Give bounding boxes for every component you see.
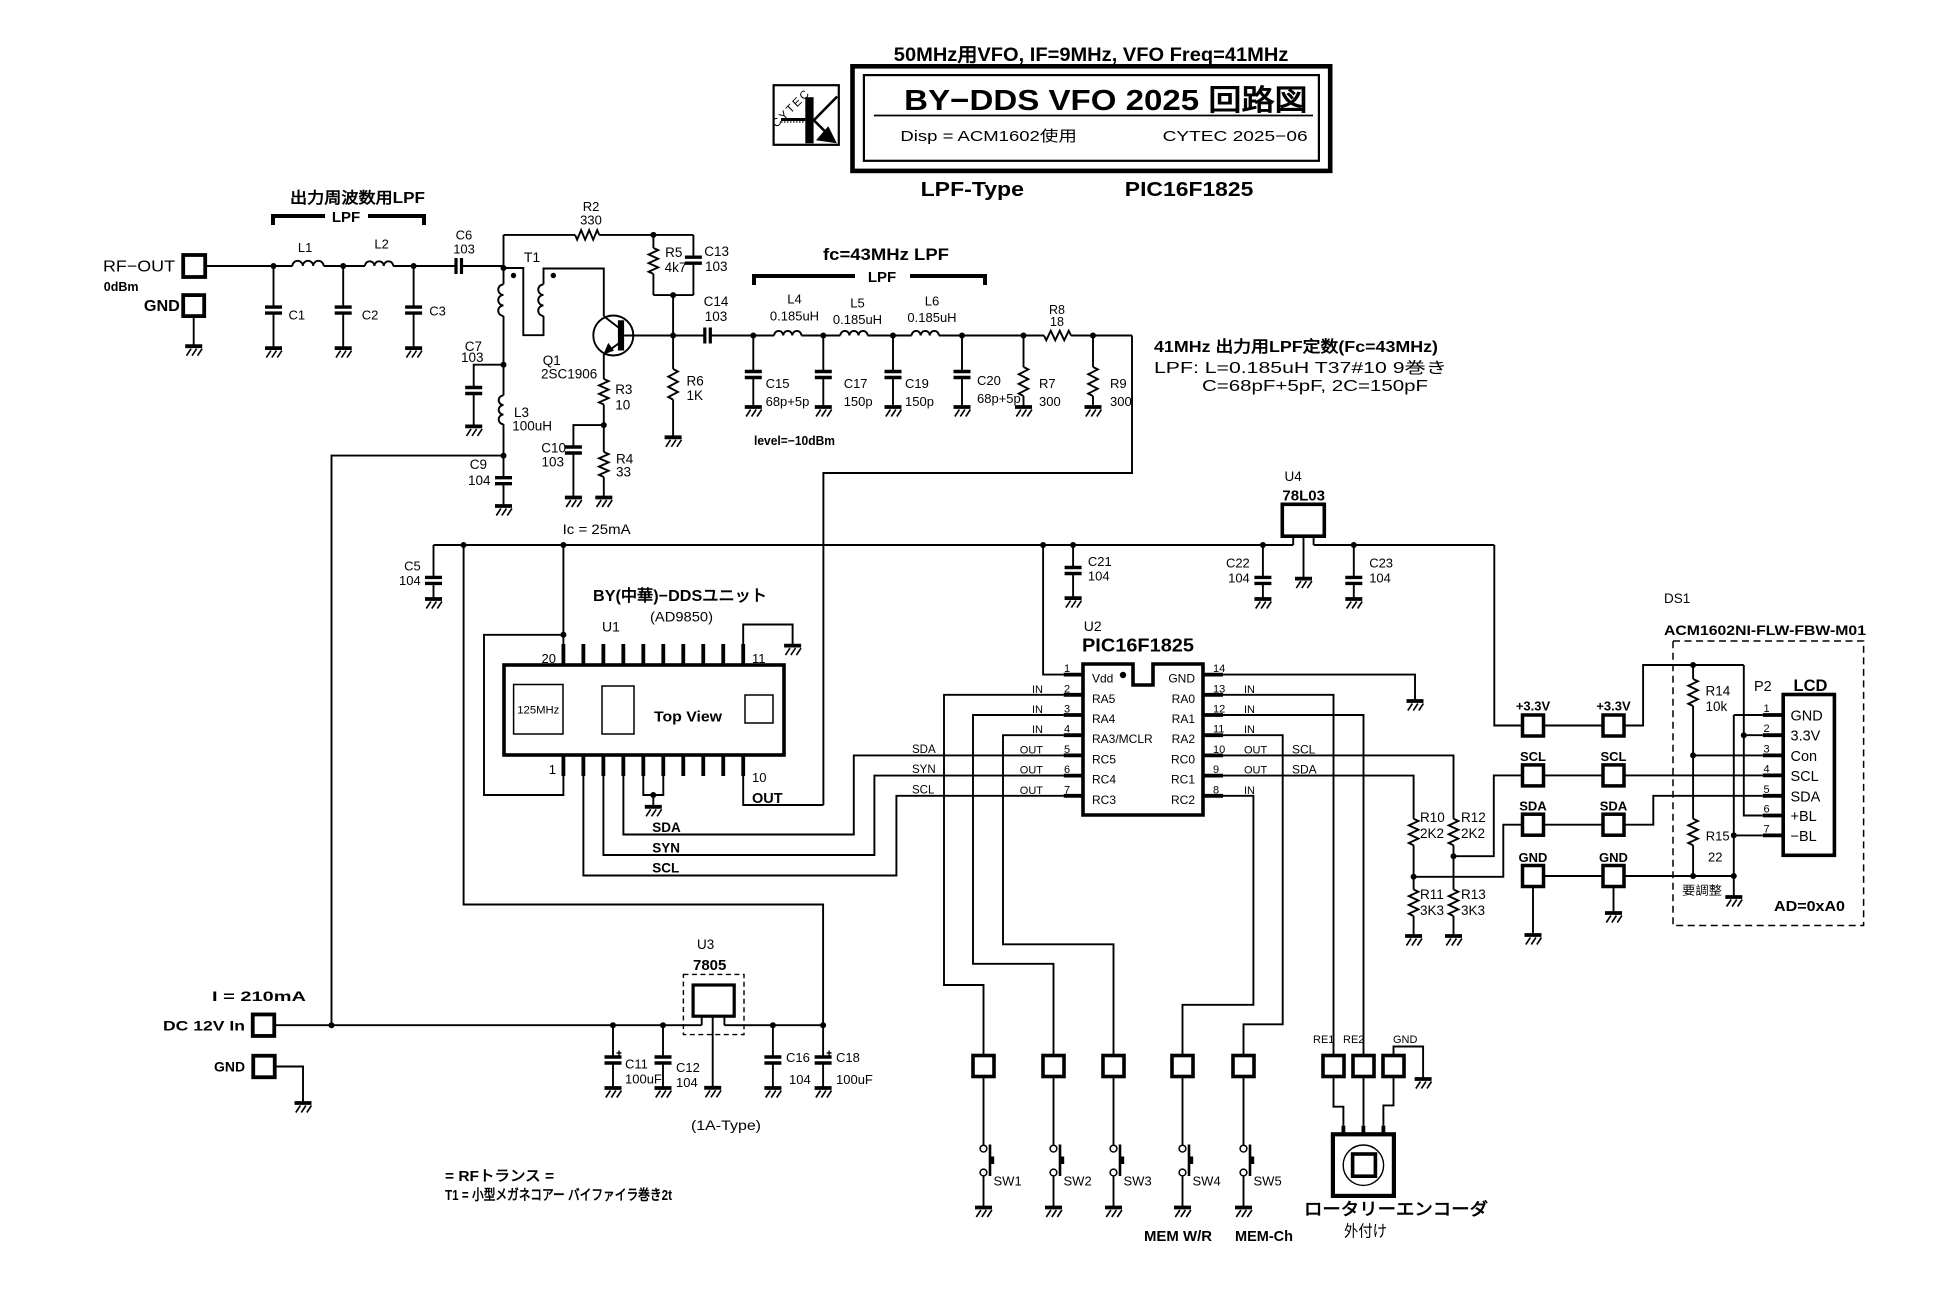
svg-text:GND: GND [144,298,180,315]
inductor L2 [365,261,393,266]
capacitor C18 [822,1025,824,1057]
svg-text:7805: 7805 [693,957,726,974]
svg-text:BY−DDS VFO 2025 回路図: BY−DDS VFO 2025 回路図 [904,84,1307,117]
inductor L5 [840,331,867,336]
pic pin1 indicator dot [1120,672,1126,678]
svg-text:LPF: LPF [332,209,360,226]
node L3/C9 junction [501,453,507,459]
svg-text:12: 12 [1213,704,1225,716]
resistor R4 [599,452,609,477]
wire Q1 base to node [624,335,705,337]
ground (C10) [565,496,582,500]
dds U1 top pins [562,644,566,665]
pin U3 ground [712,1016,714,1088]
ground (dds pin11) [784,644,801,648]
pad +3.3V right [1603,715,1624,736]
wire dds pin1 supply loop [484,635,563,795]
wire dds pin11 to ground [743,625,792,646]
svg-text:8: 8 [1213,784,1219,796]
svg-text:103: 103 [541,455,564,470]
pad RE2 [1353,1056,1374,1077]
wire SW1 to ground [983,1176,985,1208]
pad GND left [1523,866,1544,887]
dds right box [745,695,773,723]
svg-text:SW1: SW1 [994,1174,1022,1189]
svg-text:T1: T1 [524,249,541,265]
svg-text:RA3/MCLR: RA3/MCLR [1092,732,1153,746]
svg-text:+3.3V: +3.3V [1596,699,1631,714]
switch SW3 [1110,1145,1117,1152]
svg-text:U4: U4 [1285,469,1303,484]
svg-text:C13: C13 [704,244,729,259]
svg-text:1: 1 [1764,703,1770,715]
phase dot T1 primary [511,273,516,278]
node dds pin20 junction [560,632,566,638]
wire Q1 emitter to R3 [603,354,605,379]
wire pad to SW4 [1182,1077,1184,1146]
node R14 top junction [1690,662,1696,668]
svg-text:ACM1602NI-FLW-FBW-M01: ACM1602NI-FLW-FBW-M01 [1664,623,1867,638]
svg-text:DS1: DS1 [1664,591,1690,606]
pad SW1 [973,1056,994,1077]
svg-text:78L03: 78L03 [1282,488,1325,505]
svg-text:C1: C1 [289,308,306,323]
wire pad to SW3 [1113,1077,1115,1146]
svg-text:100uH: 100uH [512,419,552,434]
pad SW2 [1043,1056,1064,1077]
svg-text:C14: C14 [704,294,729,309]
svg-text:14: 14 [1213,663,1225,675]
dds chip U1 body [504,665,784,755]
wire SCL node to pads [1454,775,1523,856]
svg-text:GND: GND [1393,1034,1418,1046]
capacitor C12 [662,1025,664,1057]
svg-text:20: 20 [542,651,556,666]
svg-text:C5: C5 [404,559,421,574]
wire GND pad right drop [1613,887,1615,914]
transistor Q1 body circle [593,316,633,356]
capacitor C15 [752,336,754,372]
node C23 junction [1351,542,1357,548]
svg-text:OUT: OUT [1020,744,1044,756]
resistor R11 [1409,890,1419,917]
wire R5/C13 bottom link [653,294,693,296]
wire LCD pin2 link [1744,734,1763,736]
wire pic pin3 to SW2 [973,715,1064,1055]
svg-text:C16: C16 [786,1050,810,1065]
svg-text:0.185uH: 0.185uH [907,310,956,325]
inductor L3 [503,365,505,396]
svg-text:3.3V: 3.3V [1791,729,1821,745]
lcd connector body [1783,695,1834,856]
svg-text:外付け: 外付け [1344,1223,1387,1241]
svg-text:PIC16F1825: PIC16F1825 [1082,636,1194,656]
svg-text:104: 104 [789,1072,811,1087]
wire pic pin12 to RE2 [1223,715,1364,1055]
svg-text:LCD: LCD [1794,677,1828,695]
terminal DC 12V In [253,1014,275,1035]
svg-text:33: 33 [616,464,631,479]
pin U4 output [1313,536,1315,545]
ground (RF GND terminal) [185,344,202,348]
wire GND pad to encoder [1383,1077,1393,1126]
wire T1 node up to R2 line [503,235,505,268]
wire SW2 to ground [1053,1176,1055,1208]
svg-text:L2: L2 [374,237,388,252]
svg-text:5: 5 [1764,784,1770,796]
svg-text:3K3: 3K3 [1461,903,1485,918]
svg-text:T1 = 小型メガネコアー バイファイラ巻き2t: T1 = 小型メガネコアー バイファイラ巻き2t [445,1186,672,1204]
node C15/L4 input [750,333,756,339]
title divider line [874,115,1313,117]
svg-text:2: 2 [1764,723,1770,735]
svg-text:104: 104 [1228,571,1250,586]
svg-text:SW3: SW3 [1124,1174,1152,1189]
wire R11 to ground [1413,916,1415,936]
svg-text:要調整: 要調整 [1682,883,1722,898]
node Con junction [1690,752,1696,758]
svg-text:5: 5 [1064,744,1070,756]
capacitor C10 [565,445,582,448]
node C19 junction [890,333,896,339]
capacitor C20 [961,336,963,372]
wire R13 to ground [1453,916,1455,936]
pad SCL left [1523,765,1544,786]
pic chip U2 body [1083,664,1203,815]
svg-text:2: 2 [1064,683,1070,695]
svg-text:SCL: SCL [1791,769,1819,785]
switch SW1 [980,1145,987,1152]
node C12 junction [660,1022,666,1028]
ground (C21) [1065,596,1082,600]
svg-text:7: 7 [1064,784,1070,796]
svg-text:10: 10 [1213,744,1225,756]
pad SW5 [1233,1056,1254,1077]
svg-text:103: 103 [705,259,728,274]
logo hatch line [781,118,805,121]
ground (R9) [1085,405,1102,409]
capacitor C5 [433,545,435,577]
regulator U3 box [693,985,734,1016]
wire C6 to T1 node [462,265,504,267]
ground (C1) [265,346,282,350]
ground (power GND) [295,1101,312,1105]
dds middle box [602,686,634,734]
svg-text:I = 210mA: I = 210mA [212,989,306,1004]
svg-text:104: 104 [1088,569,1110,584]
svg-text:11: 11 [752,651,766,666]
svg-text:C19: C19 [905,376,929,391]
svg-text:(AD9850): (AD9850) [650,609,713,625]
wire R8 to output corner [1071,335,1132,337]
capacitor C17 [822,336,824,372]
switch SW2 [1050,1145,1057,1152]
capacitor C13 [692,235,694,257]
switch SW5 [1240,1145,1247,1152]
wire SCL to LCD pin4 [1624,774,1763,776]
ground (C3) [405,346,422,350]
rotary encoder body [1333,1134,1394,1196]
wire R10 to R11 [1413,845,1415,889]
svg-text:104: 104 [399,573,421,588]
resistor R15 [1692,755,1694,818]
svg-text:7: 7 [1764,823,1770,835]
ground (SW1) [975,1206,992,1210]
wire pic pin2 to SW1 [944,695,1064,1056]
node DDS supply junction [560,542,566,548]
ground (C17) [815,405,832,409]
svg-text:SCL: SCL [1292,742,1316,756]
svg-text:RC4: RC4 [1092,773,1116,787]
svg-text:MEM W/R: MEM W/R [1144,1228,1212,1245]
node LCD gnd junction [1731,873,1737,879]
svg-text:C9: C9 [470,457,487,472]
svg-text:R12: R12 [1461,810,1486,825]
node C18 junction [820,1022,826,1028]
svg-text:RC5: RC5 [1092,752,1116,766]
terminal GND (power) [253,1056,275,1078]
svg-text:1: 1 [549,762,556,777]
svg-text:C17: C17 [844,376,868,391]
wire encoder GND pad to ground [1394,1047,1424,1080]
svg-text:SCL: SCL [652,861,679,876]
svg-text:10: 10 [615,398,630,413]
lcd module dashed box [1673,641,1864,926]
svg-text:GND: GND [1791,709,1823,725]
ground (C7) [465,424,482,428]
pic left pin stubs [1064,673,1083,677]
svg-text:RA5: RA5 [1092,692,1116,706]
svg-text:10: 10 [752,770,766,785]
ground (pic pin14) [1407,699,1424,703]
capacitor C3 [413,266,415,307]
svg-text:SW5: SW5 [1254,1174,1282,1189]
svg-text:+BL: +BL [1791,809,1817,825]
ground (C18) [815,1086,832,1090]
resistor R2 [575,230,599,240]
svg-text:L1: L1 [298,240,312,255]
ground (SW4) [1174,1206,1191,1210]
svg-text:SYN: SYN [652,841,680,856]
svg-text:125MHz: 125MHz [517,705,559,717]
node C11 junction [610,1022,616,1028]
wire pad to SW5 [1243,1077,1245,1146]
svg-text:RA2: RA2 [1172,732,1196,746]
wire LCD ground bus [1733,715,1735,897]
pad SW3 [1103,1056,1124,1077]
svg-text:3K3: 3K3 [1420,903,1444,918]
svg-text:330: 330 [580,213,602,228]
svg-text:Ic = 25mA: Ic = 25mA [563,521,632,537]
pic right pin stubs [1203,673,1223,677]
svg-text:U3: U3 [697,937,714,952]
svg-text:18: 18 [1050,315,1064,329]
wire dds OUT [743,776,823,805]
ground (C9) [495,504,512,508]
wire L2 to C6 [393,265,456,267]
pad RE1 [1323,1056,1344,1077]
wire +3.3V pads link [1544,725,1604,727]
svg-text:4: 4 [1064,724,1070,736]
svg-text:Vdd: Vdd [1092,672,1113,686]
wire dds pins 6/7 join [643,776,663,795]
wire L1 to L2 [324,265,365,267]
svg-text:SDA: SDA [652,820,681,835]
dds U1 bottom pins [562,755,566,776]
resistor R12 [1449,819,1459,845]
wire R2 line left segment [504,234,576,236]
svg-text:SDA: SDA [912,744,936,756]
svg-text:CYTEC 2025−06: CYTEC 2025−06 [1163,128,1308,145]
ground (C12) [655,1086,672,1090]
ground (LCD) [1725,895,1742,899]
svg-text:104: 104 [1369,571,1391,586]
node LCD 3.3V pin2 junction [1741,732,1747,738]
svg-text:100uF: 100uF [625,1072,662,1087]
svg-text:41MHz 出力用LPF定数(Fc=43MHz): 41MHz 出力用LPF定数(Fc=43MHz) [1154,337,1438,356]
svg-text:C2: C2 [362,308,379,323]
capacitor C9 [503,456,505,478]
transformer T1 link wire [504,268,544,335]
svg-text:RC1: RC1 [1171,773,1195,787]
svg-text:103: 103 [453,242,475,257]
node dds gnd pins junction [650,792,656,798]
pad +3.3V left [1523,715,1544,736]
logo arrow upper diagonal [814,97,838,121]
svg-text:C6: C6 [456,228,473,243]
svg-text:C15: C15 [766,376,790,391]
svg-text:50MHz用VFO, IF=9MHz, VFO Freq: 50MHz用VFO, IF=9MHz, VFO Freq=41MHz [894,45,1289,66]
node C22 junction [1260,542,1266,548]
wire C14 to LPF input [710,335,774,337]
svg-text:6: 6 [1764,804,1770,816]
svg-text:0.185uH: 0.185uH [833,312,882,327]
svg-text:BY(中華)−DDSユニット: BY(中華)−DDSユニット [593,586,767,605]
ground (C15) [745,405,762,409]
svg-text:SDA: SDA [1519,799,1547,814]
svg-text:C11: C11 [625,1057,648,1072]
svg-text:DC 12V In: DC 12V In [163,1018,245,1034]
wire pad to SW1 [983,1077,985,1146]
wire GND terminal to ground [193,316,195,346]
svg-text:R15: R15 [1706,829,1730,844]
capacitor C16 [772,1025,774,1057]
svg-text:LPF: L=0.185uH T37#10 9巻き: LPF: L=0.185uH T37#10 9巻き [1154,359,1447,377]
wire RE1 to encoder [1334,1077,1344,1126]
node R12/R13 junction [1451,853,1457,859]
wire +3.3V to LCD [1624,665,1744,726]
capacitor C2 [342,266,344,307]
svg-text:出力周波数用LPF: 出力周波数用LPF [290,188,425,207]
node C16 junction [770,1022,776,1028]
svg-text:U2: U2 [1084,618,1102,634]
wire 5V output line [724,1024,823,1026]
svg-text:13: 13 [1213,683,1225,695]
capacitor C1 [273,266,275,307]
svg-text:0dBm: 0dBm [104,280,139,294]
transistor Q1 emitter arrow [603,343,614,355]
wire SCL dds to pic [583,776,1063,876]
wire R12 to R13 [1453,845,1455,889]
svg-text:SCL: SCL [1520,749,1546,764]
wire SDA dds to pic [623,755,1063,834]
svg-text:GND: GND [1599,850,1628,865]
svg-text:0.185uH: 0.185uH [770,309,819,324]
svg-text:RC3: RC3 [1092,793,1116,807]
svg-text:GND: GND [1519,850,1548,865]
svg-text:SDA: SDA [1600,799,1628,814]
wire L4 to L5 [801,335,840,337]
capacitor C23 [1353,545,1355,577]
wire pic pin11 to SW5 [1223,735,1283,1055]
svg-text:3: 3 [1064,704,1070,716]
inductor L4 [774,331,801,336]
rotary encoder shaft square [1353,1154,1376,1176]
svg-text:104: 104 [676,1075,698,1090]
svg-text:4k7: 4k7 [665,260,687,275]
wire +3.3V down to pads [1494,545,1522,726]
svg-text:SCL: SCL [1601,749,1627,764]
svg-text:Disp = ACM1602使用: Disp = ACM1602使用 [900,128,1077,145]
svg-text:9: 9 [1213,764,1219,776]
wire dds pin20 supply drop [562,545,564,644]
svg-text:MEM-Ch: MEM-Ch [1235,1228,1293,1245]
svg-text:C12: C12 [676,1060,700,1075]
wire pic pin8 to SW4 [1183,796,1254,1056]
node R7 junction [1021,333,1027,339]
pad GND right [1603,866,1624,887]
bracket LPF (output filter) [273,216,325,225]
logo arrowhead [816,126,837,143]
resistor R5 [652,235,654,248]
wire pad to SW2 [1053,1077,1055,1146]
pad SCL right [1603,765,1624,786]
ground (C23) [1345,597,1362,601]
resistor R14 [1692,665,1694,679]
svg-text:11: 11 [1213,724,1224,736]
transistor Q1 collector diagonal [604,316,619,327]
svg-text:OUT: OUT [1020,765,1044,777]
logo CYTEC box [774,85,839,145]
svg-text:2SC1906: 2SC1906 [541,367,597,382]
node Q1 base junction [670,333,676,339]
svg-text:SDA: SDA [1791,789,1821,805]
wire L5 to L6 [868,335,912,337]
dds crystal box 125MHz [514,685,563,735]
node +5V riser junction [461,542,467,548]
wire SW4 to ground [1182,1176,1184,1208]
svg-text:GND: GND [214,1059,245,1075]
svg-text:22: 22 [1708,850,1722,865]
capacitor C22 [1262,545,1264,577]
wire +3.3V rail [1314,544,1495,546]
svg-text:SYN: SYN [912,764,936,776]
ground (C2) [335,346,352,350]
svg-text:C=68pF+5pF, 2C=150pF: C=68pF+5pF, 2C=150pF [1202,378,1428,395]
svg-text:RE2: RE2 [1343,1034,1364,1046]
wire LPF output to DDS OUT riser [823,336,1132,806]
capacitor C21 [1072,545,1074,568]
wire SW5 to ground [1243,1176,1245,1208]
svg-text:1K: 1K [687,388,704,403]
svg-text:RA0: RA0 [1172,692,1196,706]
svg-text:R13: R13 [1461,887,1486,902]
wire 12V input line [274,1024,701,1026]
node Vdd riser junction [1040,542,1046,548]
svg-text:PIC16F1825: PIC16F1825 [1125,179,1254,201]
capacitor C7 [465,386,482,389]
pad SDA left [1523,814,1544,835]
